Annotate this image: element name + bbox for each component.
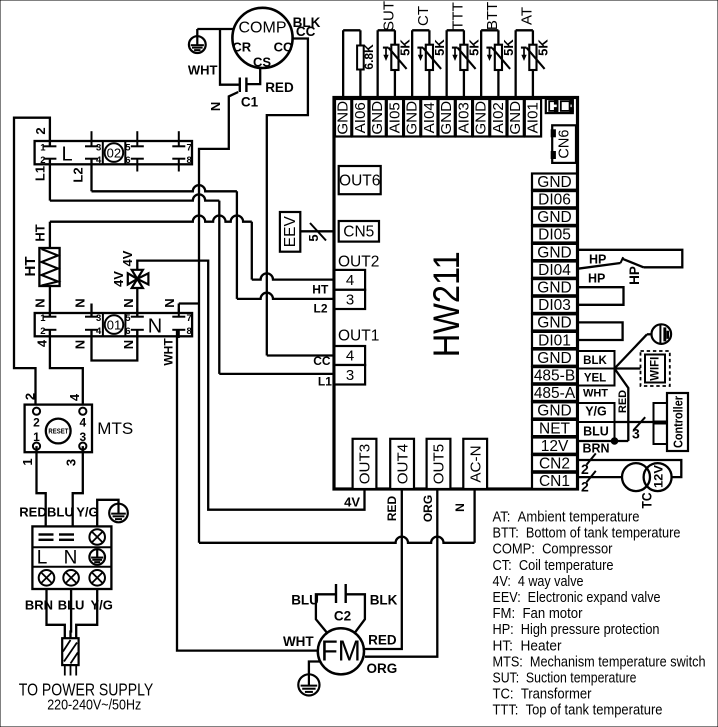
svg-text:Y/G: Y/G — [585, 405, 607, 419]
svg-text:2: 2 — [40, 326, 45, 337]
switch MTS (mechanism temperature switch) — [25, 405, 92, 453]
wire HT bottom to O1 pin1 — [49, 286, 51, 317]
svg-text:L2: L2 — [313, 302, 327, 316]
svg-text:4V: 4 way valve: 4V: 4 way valve — [493, 573, 584, 590]
valve 4V (4-way) — [132, 270, 143, 279]
sensor loop AT wires — [515, 30, 517, 99]
svg-text:AI02: AI02 — [490, 102, 507, 133]
svg-text:OUT1: OUT1 — [338, 328, 379, 345]
pin DI06 (right column) — [532, 191, 577, 207]
thermistor CT 5K — [426, 45, 433, 70]
svg-text:OUT3: OUT3 — [357, 444, 374, 485]
svg-text:AI04: AI04 — [421, 102, 438, 133]
svg-text:OUT5: OUT5 — [431, 444, 448, 485]
svg-text:5K: 5K — [398, 39, 413, 56]
pin GND (right column) — [532, 314, 577, 330]
pin DI03 (right column) — [532, 297, 577, 313]
capacitor C1 — [239, 78, 241, 93]
svg-text:TTT: Top of tank temperature: TTT: Top of tank temperature — [493, 702, 663, 719]
svg-text:WHT: WHT — [283, 634, 314, 649]
svg-text:HT: Heater: HT: Heater — [493, 637, 562, 654]
sensor loop R 6.8K wires — [342, 30, 344, 99]
pin AI04 (top row) — [421, 99, 437, 137]
relay O1 (N bus) — [35, 313, 192, 336]
svg-text:CT: CT — [415, 6, 432, 26]
svg-text:BRN: BRN — [582, 442, 609, 456]
connector stubs at controller — [654, 403, 668, 422]
pin GND (right column) — [532, 279, 577, 295]
svg-text:RED: RED — [385, 496, 399, 522]
svg-text:AI01: AI01 — [524, 102, 541, 133]
pin tick O1 — [131, 316, 144, 318]
pin AI01 (top row) — [525, 99, 541, 137]
thermistor BTT 5K — [495, 45, 502, 70]
connector CN6 — [552, 125, 576, 163]
svg-text:OUT4: OUT4 — [394, 444, 411, 485]
svg-text:OUT2: OUT2 — [338, 254, 379, 271]
svg-text:7: 7 — [187, 313, 192, 324]
svg-text:RESET: RESET — [48, 429, 69, 436]
svg-text:6.8K: 6.8K — [362, 44, 376, 70]
wire NET (3-core to controller) — [615, 421, 654, 423]
connector (2-pin, top right of HW211) — [546, 99, 573, 113]
svg-text:4: 4 — [96, 155, 102, 166]
svg-text:CN1: CN1 — [539, 473, 570, 490]
svg-text:WHT: WHT — [583, 388, 608, 400]
svg-text:BTT: Bottom of tank temperatu: BTT: Bottom of tank temperature — [493, 525, 681, 542]
svg-text:MTS: MTS — [97, 419, 133, 438]
wire CN2 to transformer — [577, 460, 681, 477]
svg-text:L2: L2 — [71, 167, 86, 182]
svg-text:5K: 5K — [501, 39, 516, 56]
tag box BLK — [578, 351, 615, 369]
wire Y/G to earth — [97, 500, 118, 527]
svg-text:GND: GND — [537, 315, 571, 332]
ground (in terminal) — [89, 549, 105, 565]
svg-text:FM: FM — [321, 636, 361, 668]
pin GND (right column) — [532, 350, 577, 366]
pin AI05 (top row) — [387, 99, 403, 137]
ground (fan motor) — [298, 674, 319, 695]
tag box Y/G — [578, 403, 615, 422]
svg-text:NET: NET — [539, 420, 571, 437]
svg-text:CR: CR — [232, 40, 251, 55]
svg-text:GND: GND — [537, 403, 571, 420]
svg-text:CC: CC — [296, 24, 316, 39]
svg-text:3: 3 — [64, 459, 79, 466]
svg-text:5: 5 — [125, 143, 131, 154]
svg-text:GND: GND — [537, 280, 571, 297]
svg-text:3: 3 — [346, 367, 354, 384]
svg-text:COMP: Compressor: COMP: Compressor — [493, 541, 613, 558]
svg-text:GND: GND — [537, 244, 571, 261]
pin tick O1 — [172, 316, 185, 318]
svg-text:3: 3 — [96, 143, 101, 154]
svg-text:WIFI: WIFI — [650, 357, 662, 381]
svg-text:BTT: BTT — [484, 2, 501, 30]
pin tick O2 — [85, 145, 98, 147]
stub O1 pin3 — [90, 304, 92, 317]
junction dot — [611, 438, 618, 445]
pin AI02 (top row) — [490, 99, 506, 137]
svg-text:DI05: DI05 — [538, 227, 571, 244]
svg-text:4V: 4V — [111, 271, 126, 287]
slash 5-core — [310, 223, 326, 241]
transformer TC — [622, 463, 650, 491]
pin OUT5 (bottom row) — [427, 439, 451, 489]
pin tick O1 — [43, 316, 56, 318]
ground (compressor) — [189, 36, 206, 53]
wire L feed (O2 pin1 / MTS) — [14, 118, 50, 412]
wire loop DI01 — [577, 322, 623, 340]
wire loop DI03 — [577, 287, 624, 305]
pin 485-B (right column) — [532, 367, 577, 383]
svg-text:CN6: CN6 — [556, 130, 572, 159]
svg-text:4: 4 — [35, 339, 50, 347]
svg-text:CT: Coil temperature: CT: Coil temperature — [493, 557, 614, 574]
wire ORG (FM to OUT5) — [365, 489, 437, 657]
svg-text:5K: 5K — [536, 39, 551, 56]
svg-text:N: N — [121, 340, 136, 349]
node junction (BLK/YEL/antenna/WIFI) — [615, 334, 648, 368]
svg-text:RED: RED — [617, 390, 629, 413]
pin OUT3 (bottom row) — [353, 439, 377, 489]
svg-text:7: 7 — [187, 143, 192, 154]
svg-text:WHT: WHT — [188, 63, 218, 78]
svg-text:N: N — [33, 298, 48, 307]
svg-text:FM: Fan motor: FM: Fan motor — [493, 605, 583, 622]
svg-text:2: 2 — [23, 393, 38, 400]
svg-text:YEL: YEL — [584, 373, 606, 385]
pin AI03 (top row) — [456, 99, 472, 137]
svg-text:N: N — [121, 298, 136, 307]
svg-text:5K: 5K — [432, 39, 447, 56]
svg-text:N: N — [162, 298, 177, 307]
tag box BLU — [578, 422, 615, 441]
svg-text:GND: GND — [438, 101, 455, 135]
wire 4V bottom to O1 pin5 — [136, 288, 138, 317]
svg-text:CS: CS — [253, 55, 271, 70]
pin GND (right column) — [532, 209, 577, 225]
svg-text:12V: 12V — [652, 465, 666, 488]
pin CN2 (right column) — [532, 455, 577, 471]
svg-text:HT: HT — [312, 283, 329, 297]
wires to supply cable — [47, 589, 65, 638]
svg-text:2: 2 — [40, 155, 45, 166]
screw terminals (row 3) — [39, 570, 55, 586]
svg-text:BLU: BLU — [291, 593, 319, 608]
pin GND (top row) — [335, 99, 351, 137]
heater HT resistor — [39, 248, 59, 286]
svg-text:4: 4 — [96, 326, 102, 337]
svg-text:RED: RED — [368, 633, 397, 648]
svg-text:ORG: ORG — [421, 495, 435, 522]
svg-text:6: 6 — [125, 155, 130, 166]
svg-text:1: 1 — [33, 430, 40, 444]
controller board HW211 outline — [334, 98, 578, 490]
svg-text:GND: GND — [473, 101, 490, 135]
pin GND (right column) — [532, 174, 577, 190]
svg-text:3: 3 — [79, 430, 86, 444]
svg-text:GND: GND — [537, 209, 571, 226]
pin GND (top row) — [473, 99, 489, 137]
svg-text:4V: 4V — [120, 250, 135, 266]
svg-text:12V: 12V — [541, 438, 569, 455]
svg-text:GND: GND — [335, 101, 352, 135]
svg-text:6: 6 — [125, 326, 130, 337]
pin 485-A (right column) — [532, 385, 577, 401]
pin GND (top row) — [404, 99, 420, 137]
sensor loop CT wires — [411, 30, 413, 99]
svg-text:DI03: DI03 — [538, 297, 571, 314]
svg-text:SUT: SUT — [380, 1, 397, 31]
svg-text:AT: Ambient temperature: AT: Ambient temperature — [493, 509, 640, 526]
svg-text:DI06: DI06 — [538, 192, 571, 209]
fan motor FM — [318, 628, 364, 674]
svg-text:3: 3 — [96, 313, 101, 324]
svg-text:L1: L1 — [318, 374, 332, 388]
wire EEV to CN5 — [300, 230, 334, 232]
svg-text:BLU: BLU — [583, 425, 609, 439]
jumper O1 pins 4-6 — [92, 330, 138, 361]
pin tick O2 — [43, 145, 56, 147]
wire ground to COMP — [197, 28, 234, 30]
svg-text:TC: Transformer: TC: Transformer — [493, 686, 592, 703]
wire MTS pin1 to terminal L — [37, 446, 46, 526]
svg-text:CN2: CN2 — [539, 456, 570, 473]
sensor loop SUT wires — [376, 30, 378, 99]
pin tick O2 — [131, 145, 144, 147]
svg-text:EEV: Electronic expand valve: EEV: Electronic expand valve — [493, 589, 661, 606]
svg-text:BLK: BLK — [583, 355, 607, 367]
compressor COMP — [232, 8, 292, 68]
svg-text:01: 01 — [107, 317, 121, 332]
pin tick O2 — [172, 145, 185, 147]
pin GND (top row) — [439, 99, 455, 137]
svg-text:1: 1 — [20, 458, 35, 465]
pin AI06 (top row) — [352, 99, 368, 137]
svg-text:2: 2 — [581, 461, 589, 477]
slash 3-core — [633, 417, 645, 430]
svg-text:N: N — [73, 340, 88, 349]
thermistor AT 5K — [529, 45, 536, 70]
svg-text:BRN: BRN — [25, 598, 53, 613]
svg-text:3: 3 — [346, 291, 354, 308]
svg-text:HW211: HW211 — [426, 251, 467, 357]
svg-text:TC: TC — [639, 493, 655, 509]
wire CN1 to transformer — [577, 476, 622, 478]
wire CC (COMP to OUT1) — [267, 39, 308, 356]
svg-text:DI01: DI01 — [538, 332, 571, 349]
wire N from C1 — [199, 92, 238, 543]
pin AC-N (bottom row) — [463, 439, 487, 489]
svg-text:HP: HP — [588, 272, 605, 286]
svg-text:HP: HP — [589, 253, 606, 267]
tag box YEL — [578, 369, 615, 386]
svg-text:Y/G: Y/G — [76, 505, 98, 520]
switch HP blade — [623, 259, 644, 268]
svg-text:5: 5 — [125, 313, 131, 324]
svg-text:485-B: 485-B — [534, 368, 575, 385]
svg-text:8: 8 — [187, 326, 192, 337]
svg-text:WHT: WHT — [162, 338, 176, 366]
svg-text:AI06: AI06 — [352, 102, 369, 133]
wire L2 (O2 pin4 to OUT2-3) — [90, 159, 92, 192]
svg-text:GND: GND — [537, 174, 571, 191]
svg-text:5: 5 — [306, 234, 321, 241]
pin GND (top row) — [508, 99, 524, 137]
pin GND (top row) — [370, 99, 386, 137]
pin tick O1 — [85, 316, 98, 318]
wire C2 left (BLU) — [316, 594, 336, 632]
thermistor TTT 5K — [460, 45, 467, 70]
wire WHT (CR to C1) — [220, 29, 239, 85]
wire to WIFI — [615, 367, 641, 369]
svg-text:1: 1 — [40, 313, 46, 324]
jumpers (row 1) — [39, 533, 54, 535]
svg-text:4: 4 — [79, 416, 86, 430]
wire RED (12V to junction) — [615, 369, 629, 442]
cable cores — [64, 665, 66, 675]
wire HP loop from GND — [577, 250, 682, 267]
button RESET — [46, 419, 71, 444]
svg-text:485-A: 485-A — [534, 385, 576, 402]
svg-text:N: N — [148, 316, 162, 338]
svg-text:3: 3 — [632, 426, 640, 442]
svg-text:GND: GND — [369, 101, 386, 135]
svg-text:L: L — [37, 548, 48, 569]
ground (terminal block area) — [109, 504, 128, 523]
svg-text:4: 4 — [346, 348, 354, 365]
svg-text:COMP: COMP — [239, 20, 287, 37]
pin NET (right column) — [532, 420, 577, 436]
relay O2 (L bus) — [35, 141, 192, 164]
svg-text:4: 4 — [346, 272, 354, 289]
svg-text:DI04: DI04 — [538, 262, 571, 279]
svg-text:4V: 4V — [344, 495, 360, 510]
thermistor SUT 5K — [391, 45, 398, 70]
svg-text:HT: HT — [33, 224, 48, 241]
module Controller — [667, 393, 688, 451]
wire WHT (O1 pin8 to FM) — [177, 330, 318, 651]
svg-text:2: 2 — [581, 479, 589, 495]
svg-text:OUT6: OUT6 — [339, 173, 380, 190]
svg-text:2: 2 — [33, 127, 48, 134]
svg-text:EEV: EEV — [282, 216, 299, 248]
connector CN5 — [339, 221, 379, 242]
svg-text:AT: AT — [518, 7, 535, 25]
svg-text:BLU: BLU — [47, 505, 74, 520]
wire L1 (O2 pin2 to OUT1-3) — [49, 159, 51, 201]
svg-text:AC-N: AC-N — [467, 445, 484, 482]
svg-text:1: 1 — [40, 143, 46, 154]
pin DI01 (right column) — [532, 332, 577, 348]
pin GND (right column) — [532, 402, 577, 418]
svg-text:GND: GND — [537, 350, 571, 367]
pin DI05 (right column) — [532, 226, 577, 242]
wire O1 pin2 to MTS pin4 — [50, 330, 83, 411]
svg-text:220-240V~/50Hz: 220-240V~/50Hz — [47, 697, 141, 714]
wire 4V top to OUT3 — [137, 261, 364, 510]
supply cable (hatched) — [62, 638, 78, 665]
wire MTS pin3 to terminal N — [73, 446, 83, 526]
svg-text:MTS: Mechanism temperature sw: MTS: Mechanism temperature switch — [493, 653, 706, 670]
wire BRN from 12V pin — [577, 440, 628, 442]
pin CN1 (right column) — [532, 473, 577, 489]
antenna symbol — [652, 324, 672, 344]
svg-text:GND: GND — [404, 101, 421, 135]
module WIFI (dashed) — [641, 351, 670, 386]
svg-text:CN5: CN5 — [343, 224, 374, 241]
svg-text:AI03: AI03 — [455, 102, 472, 133]
svg-text:L: L — [61, 144, 72, 166]
wire RED (FM to OUT4) — [364, 489, 402, 649]
wire CS to C1 — [246, 68, 260, 84]
wire FM to ground — [309, 662, 320, 675]
svg-text:HP: HP — [627, 266, 642, 285]
svg-text:AI05: AI05 — [386, 102, 403, 133]
svg-text:TTT: TTT — [449, 2, 466, 30]
sensor loop BTT wires — [480, 30, 482, 99]
svg-text:C1: C1 — [241, 95, 259, 110]
wire N to O1 pin7 — [179, 302, 199, 304]
svg-text:CC: CC — [274, 40, 293, 55]
svg-text:RED: RED — [265, 80, 294, 95]
terminal block — [32, 526, 111, 589]
svg-text:8: 8 — [187, 155, 192, 166]
svg-text:ORG: ORG — [367, 661, 398, 676]
svg-text:SUT: Suction temperature: SUT: Suction temperature — [493, 670, 637, 687]
svg-text:N: N — [64, 548, 78, 569]
svg-text:4: 4 — [67, 393, 82, 401]
svg-text:RED: RED — [19, 505, 46, 520]
svg-text:Y/G: Y/G — [91, 598, 113, 613]
svg-text:L1: L1 — [33, 166, 48, 181]
valve EEV — [280, 212, 300, 252]
svg-text:GND: GND — [507, 101, 524, 135]
wire HP from DI04 — [577, 263, 621, 269]
sensor loop TTT wires — [445, 30, 447, 99]
pin OUT4 (bottom row) — [390, 439, 414, 489]
pin 12V (right column) — [532, 438, 577, 454]
svg-text:5K: 5K — [467, 39, 482, 56]
screw terminal — [89, 529, 105, 545]
pin GND (right column) — [532, 244, 577, 260]
wire N bus to AC-N — [199, 537, 475, 543]
svg-text:HT: HT — [22, 257, 39, 277]
pin DI04 (right column) — [532, 262, 577, 278]
svg-text:C2: C2 — [334, 609, 351, 624]
svg-text:N: N — [453, 503, 467, 512]
svg-text:BLK: BLK — [370, 593, 398, 608]
svg-text:N: N — [73, 298, 88, 307]
svg-text:Controller: Controller — [672, 396, 686, 448]
svg-text:N: N — [208, 102, 223, 111]
wire HT top to OUT2-4 — [49, 222, 51, 248]
svg-text:2: 2 — [33, 416, 40, 430]
capacitor C2 — [335, 584, 337, 603]
resistor 6.8K — [357, 46, 364, 70]
connector OUT6 — [339, 166, 381, 194]
wire C2 right (BLK) — [346, 594, 365, 632]
svg-text:HP: High pressure protection: HP: High pressure protection — [493, 621, 660, 638]
svg-text:02: 02 — [107, 145, 121, 160]
